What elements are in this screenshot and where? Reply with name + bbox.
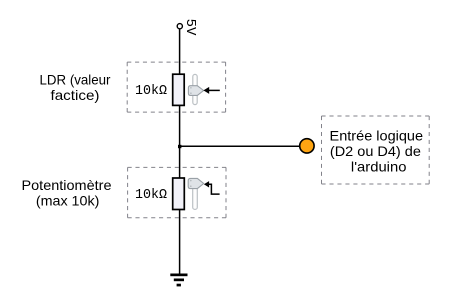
svg-text:Potentiomètre: Potentiomètre: [22, 177, 112, 193]
svg-text:Entrée logique: Entrée logique: [330, 128, 424, 144]
svg-text:l'arduino: l'arduino: [351, 159, 407, 175]
svg-text:10kΩ: 10kΩ: [135, 188, 167, 203]
svg-text:(D2 ou D4) de: (D2 ou D4) de: [330, 143, 421, 159]
svg-text:10kΩ: 10kΩ: [135, 84, 167, 99]
svg-text:(max 10k): (max 10k): [36, 192, 100, 208]
svg-text:factice): factice): [51, 87, 100, 103]
svg-text:5V: 5V: [182, 19, 198, 36]
svg-text:LDR (valeur: LDR (valeur: [40, 71, 111, 87]
